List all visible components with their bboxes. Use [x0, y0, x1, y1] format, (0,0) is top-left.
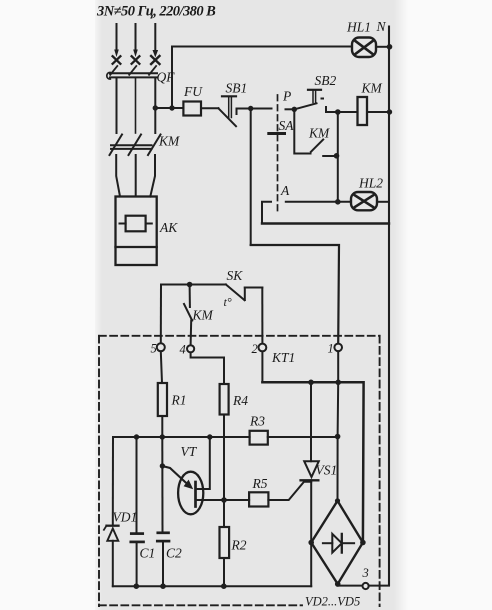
svg-text:A: A	[280, 183, 290, 198]
terminal 2	[259, 344, 267, 352]
wire HL1 to N	[376, 46, 390, 48]
svg-text:FU: FU	[183, 84, 203, 99]
supply line L1 with arrow	[113, 24, 121, 64]
wire terminal 5 to R1	[161, 351, 162, 383]
wire R5 to VS1 gate	[268, 482, 311, 500]
wire R4 to R2	[223, 415, 225, 528]
junction HL1 riser	[169, 105, 174, 110]
wire R2 to rail	[223, 558, 225, 586]
junction R2 rail	[221, 583, 227, 589]
resistor R5	[249, 492, 268, 506]
junction C1 rail	[134, 583, 140, 589]
svg-text:VD1: VD1	[113, 510, 138, 525]
svg-text:AK: AK	[159, 220, 178, 235]
svg-text:VS1: VS1	[316, 463, 338, 478]
junction R1 bottom	[160, 434, 165, 439]
junction SK KM branch	[187, 282, 193, 288]
bridge inner diode	[323, 534, 354, 553]
svg-text:KM: KM	[308, 126, 330, 141]
junction C2 rail	[160, 583, 166, 589]
lamp HL1	[352, 38, 376, 58]
svg-text:P: P	[282, 89, 291, 104]
svg-text:R4: R4	[232, 393, 248, 408]
junction VT emitter tap	[160, 463, 165, 468]
svg-text:KM: KM	[158, 134, 180, 149]
wire terminal 4 jog	[191, 352, 224, 384]
svg-text:t°: t°	[224, 295, 232, 309]
wire QF pole2 down	[135, 78, 137, 133]
wire terminal 2 down	[261, 351, 263, 382]
wire VT collector	[197, 437, 210, 489]
wire terminal 3 to N	[369, 585, 389, 587]
svg-text:SK: SK	[227, 268, 244, 283]
wire collector bus	[113, 436, 250, 438]
wire VD1 to rail	[112, 541, 114, 586]
wire SB2 to KM coil	[326, 111, 358, 113]
junction phase tap	[153, 105, 158, 110]
bridge vertex dots	[308, 498, 365, 587]
supply line L2 with arrow	[132, 24, 140, 64]
svg-text:2: 2	[252, 342, 258, 356]
wire A to N line	[262, 222, 389, 224]
terminal 5	[157, 343, 165, 351]
wire HL2 left	[286, 201, 351, 203]
wire to KT1 terminal 1	[251, 245, 339, 343]
dashed box KT1	[99, 336, 380, 606]
svg-text:4: 4	[180, 343, 186, 357]
capacitor C2	[157, 533, 169, 586]
contact KM auxiliary	[294, 109, 336, 156]
lamp HL2	[351, 192, 377, 210]
wire KM pole3 to AK	[150, 155, 155, 197]
svg-text:SB2: SB2	[315, 73, 337, 88]
resistor R3	[250, 431, 268, 445]
wire anode bus	[262, 382, 363, 542]
wire R1 to bus	[161, 416, 163, 437]
resistor R2	[220, 527, 230, 558]
wire KM pole1 to AK	[116, 155, 120, 197]
terminal 1	[334, 344, 342, 352]
wire HL2 to N	[377, 201, 389, 203]
junction C1 top	[134, 434, 139, 439]
wire SK left riser	[160, 285, 162, 344]
terminal 3	[363, 583, 369, 589]
wire SK to terminal 2	[261, 288, 263, 344]
wire riser to HL1	[172, 47, 352, 109]
svg-text:KM: KM	[361, 81, 383, 96]
svg-text:C2: C2	[166, 546, 182, 561]
junction KM aux right	[334, 153, 340, 159]
svg-text:KT1: KT1	[271, 350, 295, 365]
transistor VT	[162, 466, 203, 514]
resistor R4	[220, 384, 229, 415]
junction VT collector	[207, 434, 212, 439]
switch SA dashed actuator	[277, 95, 279, 215]
junction SB2 left	[292, 107, 297, 112]
wire VS1 to rail corner	[310, 543, 312, 587]
supply line L3 with arrow	[151, 24, 159, 64]
terminal 4	[187, 345, 194, 352]
svg-text:R2: R2	[231, 538, 247, 553]
wire R3 right	[268, 436, 338, 438]
svg-text:3N≠50 Гц, 220/380 В: 3N≠50 Гц, 220/380 В	[96, 4, 216, 20]
pushbutton SB1	[218, 96, 236, 126]
junction KM aux top	[335, 109, 341, 115]
wire link to HL2	[337, 112, 339, 202]
svg-text:SB1: SB1	[226, 81, 248, 96]
wire FU to SB1	[201, 107, 218, 109]
svg-text:R1: R1	[171, 393, 187, 408]
contact A seat	[262, 202, 271, 224]
svg-text:R3: R3	[249, 414, 265, 429]
wire R1 to C2	[161, 437, 163, 532]
junction KT1 branch	[248, 106, 253, 111]
switch SA blade	[269, 132, 285, 135]
svg-text:SA: SA	[279, 118, 295, 133]
wire KM coil to N	[367, 111, 390, 113]
svg-text:N: N	[376, 19, 387, 34]
resistor R1	[158, 383, 167, 416]
circuit breaker QF	[107, 66, 157, 79]
junction R3 end	[335, 434, 341, 440]
svg-text:1: 1	[328, 342, 334, 356]
wire terminal 1 down	[337, 351, 340, 501]
svg-text:VT: VT	[181, 444, 198, 459]
svg-text:5: 5	[151, 342, 157, 356]
svg-text:QF: QF	[157, 70, 176, 85]
wire SK top	[161, 284, 226, 286]
zener diode VD1	[104, 526, 119, 541]
thyristor VS1	[301, 382, 319, 542]
junction coil N	[387, 109, 392, 114]
svg-text:R5: R5	[252, 476, 268, 491]
wire QF pole3 down	[154, 78, 156, 133]
svg-text:VD2...VD5: VD2...VD5	[305, 595, 360, 609]
neutral line N vertical	[388, 27, 390, 586]
svg-text:C1: C1	[140, 546, 156, 561]
bottom rail	[113, 585, 311, 587]
capacitor C1	[131, 534, 144, 542]
diode bridge VD2-VD5	[311, 501, 363, 584]
fuse FU	[183, 102, 201, 116]
junction base R2	[221, 497, 227, 503]
wire SB1 to SA contact P	[237, 108, 272, 110]
coil KM	[358, 97, 368, 125]
junction HL1 N	[387, 44, 393, 50]
svg-text:HL1: HL1	[346, 20, 371, 35]
svg-text:HL2: HL2	[358, 176, 383, 191]
wire SA P to SB2	[286, 108, 295, 110]
heater block AK	[116, 197, 157, 266]
wire QF pole1 down	[116, 78, 118, 133]
wire SB1 junction down	[250, 109, 252, 246]
junction HL2	[335, 199, 341, 205]
svg-text:3: 3	[362, 566, 369, 580]
junction terminal1 bus	[335, 380, 341, 386]
junction VS1 anode	[308, 380, 314, 386]
wire C1 leads	[136, 437, 138, 586]
wire bus to VD1	[112, 437, 114, 526]
pushbutton SB2	[295, 90, 327, 112]
svg-text:KM: KM	[192, 308, 214, 323]
thermal contact SK	[226, 285, 262, 301]
wire phase tap to FU	[155, 107, 183, 109]
contactor KM main contacts	[110, 135, 161, 156]
wire VT base to R5	[197, 499, 250, 501]
contact KM timer branch	[184, 285, 192, 346]
wire bridge to terminal 3	[338, 585, 363, 587]
wire KM pole2 to AK	[135, 155, 137, 197]
